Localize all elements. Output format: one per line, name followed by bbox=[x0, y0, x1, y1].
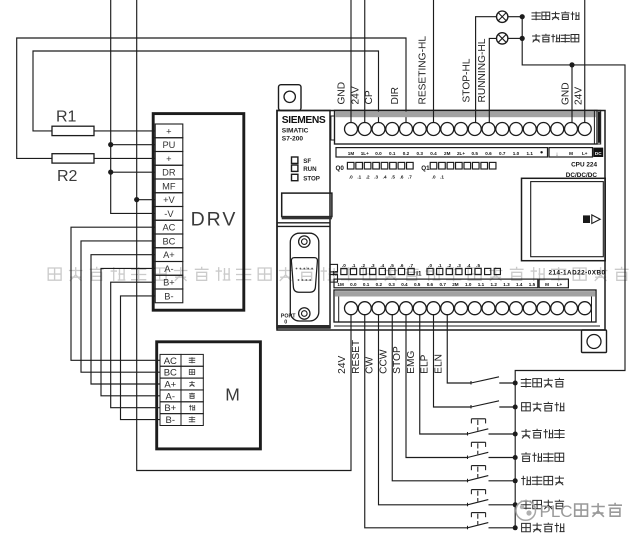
svg-text:24V: 24V bbox=[337, 355, 348, 373]
svg-text:A+: A+ bbox=[163, 250, 175, 260]
svg-text:.5: .5 bbox=[391, 174, 395, 179]
junction PU bbox=[108, 142, 113, 147]
svg-text:.3: .3 bbox=[457, 263, 461, 268]
svg-text:1.1: 1.1 bbox=[478, 282, 485, 287]
motor terminal AC bbox=[160, 354, 181, 366]
switch emergency bbox=[468, 419, 516, 436]
junction switch common 3 bbox=[513, 432, 518, 437]
junction switch common 4 bbox=[513, 455, 518, 460]
wire ELP from PLC input down to switch bbox=[434, 315, 472, 407]
wire EMG from PLC input down to switch bbox=[420, 315, 468, 434]
switch forward bbox=[468, 490, 516, 507]
svg-text:B+: B+ bbox=[164, 403, 176, 414]
svg-text:1L+: 1L+ bbox=[361, 151, 369, 156]
svg-text:BC: BC bbox=[162, 236, 175, 246]
svg-text:0.5: 0.5 bbox=[414, 282, 421, 287]
wire ELN from PLC input down to switch bbox=[447, 315, 471, 383]
wire RESETING-HL to terminal 0.4 bbox=[433, 0, 435, 123]
motor wire colour char 0 bbox=[189, 357, 195, 363]
PLC Siemens S7-200 CPU 224 body bbox=[277, 111, 605, 331]
DB9 screw bottom bbox=[299, 308, 310, 319]
switch label reset bbox=[522, 523, 531, 531]
svg-text:Q1: Q1 bbox=[421, 165, 430, 172]
wire DRV A+ to motor A+ bbox=[91, 255, 161, 384]
svg-text:CCW: CCW bbox=[378, 349, 389, 374]
resistor R1 bbox=[52, 126, 94, 135]
top strip left end cap bbox=[331, 116, 335, 140]
switch label emergency bbox=[521, 429, 530, 438]
svg-text:1.2: 1.2 bbox=[491, 282, 498, 287]
svg-text:L+: L+ bbox=[582, 151, 588, 156]
svg-text:2M: 2M bbox=[444, 151, 451, 156]
svg-text:.7: .7 bbox=[409, 263, 413, 268]
svg-text:.5: .5 bbox=[476, 263, 480, 268]
wire STOP from PLC input down to switch bbox=[406, 315, 468, 458]
svg-text:.2: .2 bbox=[447, 263, 451, 268]
svg-text:.4: .4 bbox=[467, 263, 471, 268]
wire R1 to DRV terminal + bbox=[94, 130, 155, 132]
DRV terminal A+ (pin 10) bbox=[155, 248, 183, 262]
svg-text:SIEMENS: SIEMENS bbox=[282, 115, 326, 126]
svg-text:0.0: 0.0 bbox=[350, 282, 357, 287]
PLC mounting ear bottom-right bbox=[582, 330, 607, 353]
DRV terminal B+ (pin 12) bbox=[155, 275, 183, 289]
top terminal strip bbox=[335, 110, 598, 144]
svg-text:DC: DC bbox=[595, 151, 602, 156]
svg-text:+: + bbox=[166, 154, 171, 164]
svg-text:RUNNING-HL: RUNNING-HL bbox=[477, 38, 488, 102]
svg-text:CPU 224: CPU 224 bbox=[571, 162, 597, 169]
watermark company text bbox=[48, 267, 628, 281]
switch pos limit bbox=[471, 401, 515, 409]
svg-text:SIMATIC: SIMATIC bbox=[282, 127, 309, 134]
svg-text:0.6: 0.6 bbox=[427, 282, 434, 287]
svg-text:R2: R2 bbox=[57, 168, 78, 185]
lamp stop indicator bbox=[497, 33, 508, 44]
svg-text:L+: L+ bbox=[557, 282, 563, 287]
wire 24V right to terminal L+ bbox=[584, 0, 586, 123]
switch neg limit bbox=[471, 377, 515, 385]
svg-text:M: M bbox=[225, 385, 240, 405]
DRV terminal B- (pin 13) bbox=[155, 289, 183, 303]
svg-text:1M: 1M bbox=[337, 282, 344, 287]
junction DR bbox=[108, 170, 113, 175]
svg-text:1M: 1M bbox=[348, 151, 355, 156]
svg-text:0.1: 0.1 bbox=[363, 282, 370, 287]
LED STOP bbox=[292, 174, 298, 180]
svg-text:PORT: PORT bbox=[281, 313, 296, 319]
svg-text:ELN: ELN bbox=[433, 354, 444, 374]
svg-text:PLC: PLC bbox=[540, 502, 573, 521]
svg-text:.0: .0 bbox=[342, 263, 346, 268]
svg-text:B-: B- bbox=[166, 415, 176, 426]
junction switch common 6 bbox=[513, 502, 518, 507]
panel divider band bbox=[277, 222, 330, 224]
motor wire colour char 5 bbox=[189, 417, 195, 423]
switch reset bbox=[468, 513, 516, 530]
DC tag black box bbox=[593, 148, 603, 157]
junction switch common 5 bbox=[513, 478, 518, 483]
wire 24V left to terminal 1L+ bbox=[364, 0, 366, 123]
svg-text:DRV: DRV bbox=[191, 209, 238, 231]
lamp label stop indicator bbox=[532, 34, 540, 42]
DRV terminal DR (pin 4) bbox=[155, 165, 183, 179]
svg-text:2L+: 2L+ bbox=[457, 151, 465, 156]
svg-text:B-: B- bbox=[164, 291, 173, 301]
svg-text:DR: DR bbox=[162, 168, 176, 178]
switch label reverse bbox=[521, 476, 531, 485]
svg-text:.0: .0 bbox=[349, 174, 353, 179]
svg-text:.7: .7 bbox=[408, 174, 412, 179]
wire lamp1 to STOP-HL terminal 0.5 bbox=[476, 17, 497, 123]
svg-text:A-: A- bbox=[166, 391, 176, 402]
wire +V branch bbox=[137, 199, 155, 201]
svg-text:.1: .1 bbox=[352, 263, 356, 268]
wire DRV A- to motor A- bbox=[101, 268, 161, 395]
svg-text:EMG: EMG bbox=[406, 351, 417, 374]
svg-text:RESET: RESET bbox=[351, 340, 362, 374]
switch label stop bbox=[521, 452, 530, 461]
svg-text:.2: .2 bbox=[366, 174, 370, 179]
svg-text:0.5: 0.5 bbox=[472, 151, 479, 156]
junction GND right bbox=[569, 62, 574, 67]
junction switch common 7 bbox=[513, 525, 518, 530]
DRV terminal A- (pin 11) bbox=[155, 262, 183, 276]
svg-text:0.2: 0.2 bbox=[376, 282, 383, 287]
lamp run indicator bbox=[497, 11, 508, 22]
svg-text:-V: -V bbox=[164, 209, 174, 219]
DRV terminal AC (pin 8) bbox=[155, 220, 183, 234]
wire lamp2 to RUNNING-HL terminal 0.6 bbox=[489, 38, 496, 122]
stepper driver DRV bbox=[153, 114, 244, 311]
svg-text:A-: A- bbox=[164, 264, 173, 274]
svg-text:.6: .6 bbox=[400, 174, 404, 179]
svg-text:0.7: 0.7 bbox=[499, 151, 506, 156]
svg-text:BC: BC bbox=[164, 368, 177, 379]
top label band (output terminal names) bbox=[336, 148, 548, 157]
junction switch common 1 bbox=[513, 381, 518, 386]
LED SF bbox=[292, 157, 298, 163]
svg-text:0.2: 0.2 bbox=[403, 151, 410, 156]
motor terminal BC bbox=[160, 366, 181, 378]
wire 24V rail: top edge down through +V junction to bottom rail, to PLC input 1M bbox=[137, 0, 351, 471]
svg-text:0.3: 0.3 bbox=[388, 282, 395, 287]
access cover bbox=[282, 193, 332, 217]
bottom terminal strip bbox=[334, 290, 596, 322]
cartridge arrow icon bbox=[583, 215, 590, 223]
wire PU branch bbox=[111, 144, 155, 146]
I input LED row bbox=[342, 263, 480, 268]
svg-text:PU: PU bbox=[162, 140, 175, 150]
svg-text:0.3: 0.3 bbox=[417, 151, 424, 156]
svg-text:.1: .1 bbox=[440, 174, 444, 179]
switch label forward bbox=[521, 500, 531, 510]
svg-text:.1: .1 bbox=[357, 174, 361, 179]
svg-text:STOP: STOP bbox=[303, 175, 320, 182]
motor wire colour char 1 bbox=[189, 370, 194, 375]
watermark PLC logo bbox=[516, 501, 536, 521]
svg-text:.3: .3 bbox=[371, 263, 375, 268]
memory cartridge slot bbox=[522, 178, 606, 260]
DB9 pins bbox=[296, 268, 313, 281]
motor terminal A- bbox=[160, 390, 181, 402]
wire lamp1 right to common bbox=[508, 16, 522, 18]
svg-text:1.5: 1.5 bbox=[529, 282, 536, 287]
LED RUN bbox=[292, 165, 298, 171]
svg-text:SF: SF bbox=[303, 158, 311, 165]
svg-text:0.7: 0.7 bbox=[439, 282, 446, 287]
wire lamp2 right to common bbox=[508, 37, 522, 39]
svg-text:MF: MF bbox=[162, 181, 176, 191]
wire GND left to terminal 1M bbox=[350, 0, 352, 123]
DRV terminal +V (pin 6) bbox=[155, 193, 183, 207]
svg-text:Q0: Q0 bbox=[336, 165, 345, 172]
svg-text:STOP-HL: STOP-HL bbox=[461, 58, 472, 102]
svg-text:A+: A+ bbox=[164, 380, 176, 391]
svg-text:CW: CW bbox=[365, 356, 376, 373]
panel side tabs bbox=[330, 264, 338, 272]
svg-text:1.4: 1.4 bbox=[516, 282, 523, 287]
wire RESET from PLC input down to switch bbox=[365, 315, 468, 528]
switch stop bbox=[468, 442, 516, 459]
svg-text:AC: AC bbox=[164, 356, 177, 367]
svg-text:24V: 24V bbox=[573, 87, 584, 105]
wire DRV BC to motor BC bbox=[81, 241, 161, 372]
wire CW from PLC input down to switch bbox=[379, 315, 468, 505]
wire lamp common down and right, around right side to switch common rail bbox=[515, 17, 625, 528]
junction lamp1 common bbox=[520, 14, 525, 19]
DB9 port outline bbox=[290, 233, 319, 321]
svg-text:0: 0 bbox=[284, 320, 287, 326]
DB9 D-face bbox=[291, 258, 317, 293]
panel bottom dark edge bbox=[278, 325, 330, 328]
svg-text:I1: I1 bbox=[416, 270, 422, 277]
wire DIR net: PLC 0.2 up, across top, down far left into R2 bbox=[17, 38, 406, 158]
motor terminal B- bbox=[160, 414, 181, 426]
motor terminal A+ bbox=[160, 378, 181, 390]
motor wire colour char 2 bbox=[189, 381, 195, 387]
svg-text:M: M bbox=[569, 151, 573, 156]
PLC left front panel bbox=[277, 111, 330, 329]
wire GND right branch to terminal M bbox=[571, 65, 573, 123]
svg-text:0.1: 0.1 bbox=[389, 151, 396, 156]
svg-text:STOP: STOP bbox=[392, 346, 403, 374]
motor wire colour char 4 bbox=[189, 405, 195, 411]
svg-text:CP: CP bbox=[364, 90, 375, 104]
wire R2 to DRV terminal + (second) bbox=[94, 157, 155, 159]
svg-text:AC: AC bbox=[162, 223, 175, 233]
svg-text:DIR: DIR bbox=[390, 87, 401, 105]
DRV terminal PU (pin 2) bbox=[155, 138, 183, 152]
stepper motor M bbox=[157, 342, 261, 449]
resistor R2 bbox=[52, 154, 94, 163]
svg-text:GND: GND bbox=[337, 82, 348, 105]
svg-text:.6: .6 bbox=[400, 263, 404, 268]
top strip right end cap bbox=[594, 110, 600, 144]
svg-text:GND: GND bbox=[561, 82, 572, 105]
svg-text:RUN: RUN bbox=[303, 166, 317, 173]
svg-text:M: M bbox=[545, 282, 549, 287]
svg-text:0.4: 0.4 bbox=[430, 151, 437, 156]
svg-text:S7-200: S7-200 bbox=[282, 136, 304, 143]
switch reverse bbox=[468, 466, 516, 483]
svg-text:↓: ↓ bbox=[556, 151, 559, 157]
svg-text:0.0: 0.0 bbox=[375, 151, 382, 156]
svg-text:RESETING-HL: RESETING-HL bbox=[418, 36, 429, 105]
svg-text:1.3: 1.3 bbox=[503, 282, 510, 287]
svg-text:.3: .3 bbox=[374, 174, 378, 179]
svg-text:.5: .5 bbox=[390, 263, 394, 268]
wire common rail to PU / DR / -V bbox=[111, 0, 155, 213]
svg-text:1.0: 1.0 bbox=[465, 282, 472, 287]
junction switch common 2 bbox=[513, 405, 518, 410]
svg-text:R1: R1 bbox=[56, 109, 77, 126]
wire CP net: PLC 0.0 up, across top, down left side into R1 bbox=[33, 51, 379, 131]
svg-text:.0: .0 bbox=[432, 174, 436, 179]
switch label pos limit bbox=[522, 403, 531, 411]
motor wire colour char 3 bbox=[189, 393, 195, 399]
DB9 screw top bbox=[299, 236, 310, 247]
svg-text:0.4: 0.4 bbox=[401, 282, 408, 287]
switch label neg limit bbox=[521, 378, 531, 388]
top terminal screws bbox=[345, 123, 592, 136]
svg-text:I0: I0 bbox=[333, 270, 339, 277]
svg-text:1.0: 1.0 bbox=[513, 151, 520, 156]
DRV terminal + (pin 3) bbox=[155, 152, 183, 166]
svg-text:ELP: ELP bbox=[420, 354, 431, 373]
junction +V bbox=[134, 197, 139, 202]
PLC lower inner edge bbox=[334, 325, 600, 327]
svg-text:+V: +V bbox=[163, 195, 175, 205]
DRV terminal MF (pin 5) bbox=[155, 179, 183, 193]
PLC mounting ear top-left bbox=[279, 85, 302, 111]
svg-text:B+: B+ bbox=[163, 278, 175, 288]
svg-text:.1: .1 bbox=[438, 263, 442, 268]
svg-text:.0: .0 bbox=[428, 263, 432, 268]
svg-text:1.1: 1.1 bbox=[527, 151, 534, 156]
svg-text:24V: 24V bbox=[350, 86, 361, 104]
svg-text:2M: 2M bbox=[452, 282, 459, 287]
junction lamp2 common bbox=[520, 36, 525, 41]
wire DRV B+ to motor B+ bbox=[111, 282, 161, 408]
bottom label band (input terminal names) bbox=[334, 279, 538, 288]
svg-text:.2: .2 bbox=[361, 263, 365, 268]
DRV terminal + (pin 1) bbox=[155, 124, 183, 138]
motor terminal B+ bbox=[160, 402, 181, 414]
svg-text:+: + bbox=[166, 126, 171, 136]
wire DRV AC to motor AC bbox=[71, 227, 161, 360]
svg-text:0.6: 0.6 bbox=[485, 151, 492, 156]
svg-text:214-1AD22-0XB0: 214-1AD22-0XB0 bbox=[548, 270, 605, 277]
svg-text:.4: .4 bbox=[383, 174, 387, 179]
wire DRV B- to motor B- bbox=[121, 296, 161, 420]
wire DR branch bbox=[111, 171, 155, 173]
bottom terminal screws bbox=[345, 302, 592, 315]
svg-text:.4: .4 bbox=[380, 263, 384, 268]
DRV terminal BC (pin 9) bbox=[155, 234, 183, 248]
wire CCW from PLC input down to switch bbox=[392, 315, 467, 481]
lamp label run indicator bbox=[532, 12, 541, 21]
DRV terminal -V (pin 7) bbox=[155, 207, 183, 221]
